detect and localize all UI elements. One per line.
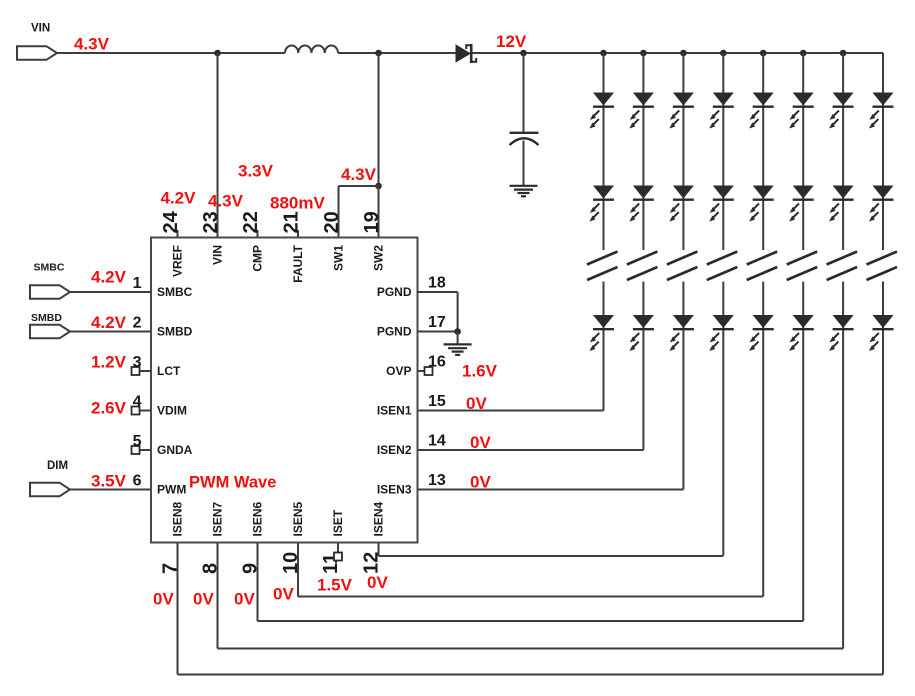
wire string 5 lower [762, 282, 764, 597]
svg-text:22: 22 [240, 211, 262, 233]
wire VIN rail left segment [57, 52, 285, 54]
svg-text:DIM: DIM [47, 460, 68, 472]
inductor L1 [285, 45, 338, 53]
svg-text:SMBC: SMBC [34, 262, 65, 274]
wire string 7 upper [842, 53, 844, 250]
node string 6 rail tap [800, 50, 807, 57]
LED D3b [673, 186, 694, 199]
wire string 2 upper [642, 53, 644, 250]
wire inductor to diode [338, 52, 456, 54]
node string 1 rail tap [600, 50, 607, 57]
svg-text:1.2V: 1.2V [91, 353, 127, 372]
svg-text:3.3V: 3.3V [238, 162, 274, 181]
break mark string 6 [787, 252, 818, 265]
svg-text:SW2: SW2 [372, 245, 386, 271]
svg-text:19: 19 [361, 211, 383, 233]
break mark string 3 [667, 252, 698, 265]
svg-text:PWM Wave: PWM Wave [189, 474, 276, 492]
svg-text:0V: 0V [234, 590, 255, 609]
wire ISEN2 to string 2 [418, 449, 644, 451]
wire pin 10 route [297, 543, 299, 597]
wire diode to LED rail [472, 52, 883, 54]
LED D3a [673, 93, 694, 106]
LED D7c [833, 315, 854, 328]
svg-text:15: 15 [428, 393, 446, 410]
svg-text:ISEN3: ISEN3 [377, 483, 412, 497]
svg-text:PGND: PGND [377, 325, 412, 339]
break mark string 2 [627, 252, 658, 265]
ground (output cap) [510, 185, 538, 187]
pin 16 stub [418, 370, 425, 372]
wire string 3 upper [682, 53, 684, 250]
pin 22 stub [257, 230, 259, 238]
wire PGND ground stem [457, 332, 459, 345]
LED D8b [873, 186, 894, 199]
svg-text:2.6V: 2.6V [91, 399, 127, 418]
wire string 5 upper [762, 53, 764, 250]
wire pin 2 [70, 331, 151, 333]
wire string 2 lower [642, 282, 644, 451]
op-amp U1 LED driver IC body [151, 238, 418, 543]
wire pin 1 [70, 291, 151, 293]
wire pin17 PGND [418, 331, 458, 333]
svg-text:ISEN1: ISEN1 [377, 404, 412, 418]
svg-text:0V: 0V [193, 590, 214, 609]
svg-text:SMBC: SMBC [157, 285, 193, 299]
svg-text:0V: 0V [367, 573, 388, 592]
ground (PGND) [444, 343, 472, 345]
svg-text:ISEN2: ISEN2 [377, 443, 412, 457]
LED D3c [673, 315, 694, 328]
node string 3 rail tap [680, 50, 687, 57]
LED D8c [873, 315, 894, 328]
LED D1b [593, 186, 614, 199]
break mark string 7 [827, 252, 858, 265]
LED D5b [753, 186, 774, 199]
svg-text:ISET: ISET [331, 509, 345, 536]
svg-text:24: 24 [160, 210, 182, 233]
svg-text:ISEN8: ISEN8 [171, 501, 185, 536]
wire string 4 lower [722, 282, 724, 557]
svg-text:13: 13 [428, 472, 446, 489]
connector DIM [30, 483, 70, 497]
wire SW tap drop [378, 53, 380, 186]
svg-text:4.3V: 4.3V [341, 165, 377, 184]
wire pin 12 route [378, 543, 380, 557]
LED D2c [633, 315, 654, 328]
svg-text:880mV: 880mV [270, 194, 325, 213]
wire ISEN1 to string 1 [418, 410, 604, 412]
svg-text:1.6V: 1.6V [462, 362, 498, 381]
break mark string 8 [867, 252, 898, 265]
svg-text:4.3V: 4.3V [208, 192, 244, 211]
svg-text:VIN: VIN [211, 245, 225, 265]
node output cap junction [520, 50, 527, 57]
svg-text:1: 1 [133, 275, 142, 292]
LED D7a [833, 93, 854, 106]
node string 5 rail tap [760, 50, 767, 57]
wire pin 8 route [217, 543, 219, 649]
pin 24 stub [177, 230, 179, 238]
svg-text:18: 18 [428, 275, 446, 292]
node SW step junction [375, 183, 382, 190]
svg-text:1.5V: 1.5V [317, 576, 353, 595]
node VIN tap junction [214, 50, 221, 57]
svg-text:4: 4 [133, 394, 142, 411]
svg-text:4.2V: 4.2V [91, 313, 127, 332]
LED D4c [713, 315, 734, 328]
svg-text:4.2V: 4.2V [91, 268, 127, 287]
pin 4 stub [140, 410, 152, 412]
svg-text:VREF: VREF [171, 245, 185, 277]
svg-text:ISEN4: ISEN4 [372, 501, 386, 536]
wire pin 9 route [257, 543, 259, 622]
LED D2b [633, 186, 654, 199]
connector SMBC [30, 285, 70, 299]
pin 11 stub [337, 543, 339, 553]
LED D1a [593, 93, 614, 106]
svg-text:6: 6 [133, 473, 142, 490]
svg-text:SMBD: SMBD [31, 312, 62, 324]
svg-text:0V: 0V [273, 585, 294, 604]
wire string 1 lower [603, 282, 605, 411]
svg-text:23: 23 [200, 211, 222, 233]
connector SMBD [30, 325, 70, 339]
svg-text:VDIM: VDIM [157, 404, 187, 418]
wire string 7 lower [842, 282, 844, 649]
wire cap bottom lead [523, 141, 525, 186]
LED D6b [793, 186, 814, 199]
LED D4a [713, 93, 734, 106]
svg-text:VIN: VIN [31, 23, 50, 35]
svg-text:CMP: CMP [251, 245, 265, 272]
svg-text:3.5V: 3.5V [91, 472, 127, 491]
wire string 8 upper [882, 53, 884, 250]
svg-text:SMBD: SMBD [157, 325, 193, 339]
LED D4b [713, 186, 734, 199]
break mark string 4 [707, 252, 738, 265]
svg-text:SW1: SW1 [332, 245, 346, 271]
wire cap top lead [523, 53, 525, 132]
wire string 8 lower [882, 282, 884, 675]
wire string 3 lower [682, 282, 684, 490]
svg-text:PWM: PWM [157, 483, 186, 497]
wire pin 6 [70, 489, 151, 491]
svg-text:ISEN7: ISEN7 [211, 501, 225, 536]
pin 5 stub [140, 449, 152, 451]
break mark string 5 [747, 252, 778, 265]
svg-text:LCT: LCT [157, 364, 181, 378]
svg-text:FAULT: FAULT [291, 244, 305, 282]
wire string 1 upper [603, 53, 605, 250]
LED D8a [873, 93, 894, 106]
svg-text:3: 3 [133, 354, 142, 371]
svg-text:0V: 0V [153, 590, 174, 609]
svg-text:ISEN6: ISEN6 [251, 501, 265, 536]
wire SW step to pin20 [339, 185, 379, 187]
svg-text:21: 21 [281, 211, 303, 233]
svg-text:14: 14 [428, 433, 446, 450]
node PGND junction [454, 328, 461, 335]
node string 2 rail tap [640, 50, 647, 57]
LED D1c [593, 315, 614, 328]
LED D2a [633, 93, 654, 106]
svg-text:OVP: OVP [386, 364, 411, 378]
svg-text:20: 20 [321, 211, 343, 233]
LED D5c [753, 315, 774, 328]
break mark string 1 [587, 252, 618, 265]
capacitor C1 [510, 132, 539, 134]
pin 21 stub [297, 230, 299, 238]
svg-text:ISEN5: ISEN5 [291, 501, 305, 536]
svg-text:2: 2 [133, 315, 142, 332]
svg-text:PGND: PGND [377, 285, 412, 299]
svg-text:4.3V: 4.3V [74, 35, 110, 54]
svg-text:5: 5 [133, 433, 142, 450]
svg-text:12V: 12V [496, 32, 527, 51]
node string 7 rail tap [840, 50, 847, 57]
diode D1 schottky [456, 44, 472, 62]
wire pin23 VIN drop [217, 53, 219, 238]
wire string 4 upper [722, 53, 724, 250]
node SW tap junction [375, 50, 382, 57]
svg-text:17: 17 [428, 314, 446, 331]
input connector VIN [17, 46, 57, 60]
node string 4 rail tap [720, 50, 727, 57]
svg-text:GNDA: GNDA [157, 443, 193, 457]
LED D6c [793, 315, 814, 328]
wire pin 7 route [177, 543, 179, 675]
wire ISEN3 to string 3 [418, 489, 684, 491]
svg-text:4.2V: 4.2V [161, 189, 197, 208]
wire string 6 lower [802, 282, 804, 622]
wire pin18 PGND [418, 291, 458, 293]
wire string 6 upper [802, 53, 804, 250]
LED D7b [833, 186, 854, 199]
LED D6a [793, 93, 814, 106]
LED D5a [753, 93, 774, 106]
pin 3 stub [140, 370, 152, 372]
